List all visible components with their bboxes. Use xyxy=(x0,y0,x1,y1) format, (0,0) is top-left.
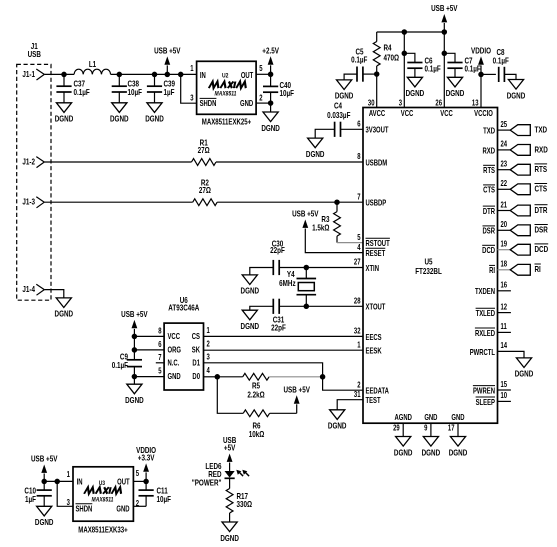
svg-text:3: 3 xyxy=(399,100,402,108)
svg-text:J1-3: J1-3 xyxy=(22,197,35,207)
svg-text:2: 2 xyxy=(259,95,262,103)
svg-text:30: 30 xyxy=(368,100,375,108)
U6 supply rail xyxy=(133,329,135,360)
svg-text:1: 1 xyxy=(67,471,70,479)
wire to RESET pin xyxy=(305,229,363,253)
svg-text:AT93C46A: AT93C46A xyxy=(168,303,200,313)
node XTOUT/Y4 xyxy=(304,304,310,310)
svg-text:SLEEP: SLEEP xyxy=(476,399,496,407)
svg-text:GND: GND xyxy=(424,414,437,422)
wire AGND xyxy=(402,423,404,436)
svg-text:RI: RI xyxy=(535,264,541,274)
svg-text:FT232BL: FT232BL xyxy=(415,266,442,276)
ground C37 xyxy=(56,103,71,113)
wire +5V to U3 IN xyxy=(43,474,45,482)
svg-text:RXD: RXD xyxy=(483,148,495,156)
wire R6 to +5V xyxy=(270,412,297,414)
wire J1-1 to L1 xyxy=(44,73,74,75)
svg-text:27: 27 xyxy=(354,259,361,267)
svg-text:1: 1 xyxy=(206,327,209,335)
svg-text:4: 4 xyxy=(206,367,209,375)
capacitor C11 xyxy=(145,481,147,490)
svg-text:USB: USB xyxy=(28,49,41,59)
svg-text:DGND: DGND xyxy=(406,88,425,98)
svg-text:+2.5V: +2.5V xyxy=(262,45,279,55)
node U3 SHDN branch xyxy=(54,479,60,485)
svg-text:0.1µF: 0.1µF xyxy=(424,64,441,74)
svg-text:13: 13 xyxy=(472,100,479,108)
wire L1 to U2 IN xyxy=(111,73,197,75)
svg-text:11: 11 xyxy=(500,324,506,332)
svg-text:0.033µF: 0.033µF xyxy=(327,110,351,120)
svg-text:DGND: DGND xyxy=(35,517,54,527)
resistor R1 27ohm xyxy=(192,159,216,166)
power USB +5V at RESET xyxy=(304,228,306,230)
ground LED xyxy=(222,522,237,532)
svg-text:4: 4 xyxy=(357,244,360,252)
wire to VCC pin 3 xyxy=(403,32,405,108)
wire U3 GND xyxy=(133,505,146,507)
svg-text:DSR: DSR xyxy=(535,225,549,235)
svg-text:DSR: DSR xyxy=(483,228,495,236)
node SHDN branch xyxy=(178,72,184,78)
svg-text:DGND: DGND xyxy=(110,114,129,124)
svg-text:2: 2 xyxy=(136,500,139,508)
wire LED to R17 xyxy=(229,478,231,488)
svg-text:CTS: CTS xyxy=(535,184,548,194)
svg-text:12: 12 xyxy=(500,304,507,312)
wire D0 xyxy=(204,376,218,378)
node DTR tag xyxy=(510,205,530,216)
svg-text:N.C.: N.C. xyxy=(167,360,179,368)
svg-text:27Ω: 27Ω xyxy=(199,185,211,195)
svg-text:VCC: VCC xyxy=(401,110,413,118)
wire GND 17 xyxy=(457,423,459,436)
wire R17 to ground xyxy=(229,513,231,522)
wire SK to EESK xyxy=(204,349,364,351)
wire J1-3 to R2 xyxy=(44,201,192,203)
svg-text:DGND: DGND xyxy=(446,88,465,98)
node DSR tag xyxy=(510,225,530,236)
power USB +5V at U2 input xyxy=(166,65,168,74)
wire TEST xyxy=(337,400,363,410)
svg-text:XTIN: XTIN xyxy=(365,265,378,273)
node U3 C10 xyxy=(41,479,47,485)
wire D1 to EEDATA node xyxy=(204,363,323,377)
power VDDIO at VCCIO xyxy=(480,65,482,74)
wire RXLED stub xyxy=(498,331,511,333)
power USB +5V at U6 xyxy=(133,328,135,330)
ground C30 xyxy=(242,275,257,285)
svg-text:USB +5V: USB +5V xyxy=(121,309,148,319)
capacitor C40 xyxy=(270,74,272,86)
wire U6 ORG xyxy=(134,349,164,351)
node VDDIO out xyxy=(143,479,149,485)
node C39 xyxy=(152,72,158,78)
svg-text:8: 8 xyxy=(357,154,360,162)
svg-text:DGND: DGND xyxy=(261,123,280,133)
IC U5 FT232BL box xyxy=(363,108,498,424)
wire to VCC pin 26 xyxy=(443,32,445,108)
wire RI stub xyxy=(498,269,511,271)
power USB +5V at R6 xyxy=(296,404,298,413)
wire DCD stub xyxy=(498,249,511,251)
svg-text:EESK: EESK xyxy=(365,348,381,356)
wire R2 to USBDP xyxy=(217,201,363,203)
svg-text:R4: R4 xyxy=(384,43,393,53)
svg-text:RSTOUT: RSTOUT xyxy=(365,240,390,248)
svg-text:TXLED: TXLED xyxy=(476,310,495,318)
svg-text:26: 26 xyxy=(435,100,442,108)
svg-text:VDDIO: VDDIO xyxy=(136,445,156,455)
wire R5 to EEDATA node xyxy=(269,376,323,378)
svg-text:DCD: DCD xyxy=(535,244,549,254)
wire +5V to LED xyxy=(229,463,231,472)
ground C4 xyxy=(308,138,323,148)
svg-text:ORG: ORG xyxy=(167,347,180,355)
svg-text:10kΩ: 10kΩ xyxy=(249,429,265,439)
svg-text:DGND: DGND xyxy=(145,114,164,124)
svg-text:IN: IN xyxy=(77,479,83,487)
capacitor C31 22pF xyxy=(280,305,306,307)
ground C7 xyxy=(447,77,462,87)
svg-text:1.5kΩ: 1.5kΩ xyxy=(312,222,329,232)
resistor R5 2.2kohm xyxy=(243,373,269,380)
wire EEDATA xyxy=(323,377,363,390)
svg-text:EEDATA: EEDATA xyxy=(365,388,388,396)
svg-text:RXD: RXD xyxy=(535,144,548,154)
svg-text:3: 3 xyxy=(190,95,193,103)
ground C38 xyxy=(112,103,127,113)
svg-text:DGND: DGND xyxy=(449,447,468,457)
svg-text:32: 32 xyxy=(354,328,361,336)
wire RXD stub xyxy=(498,149,511,151)
pin J1-2 xyxy=(36,157,44,168)
pin J1-3 xyxy=(36,197,44,208)
wire J1-2 to R1 xyxy=(44,161,191,163)
wire U3 OUT xyxy=(133,480,146,482)
svg-text:9: 9 xyxy=(424,425,427,433)
svg-text:GND: GND xyxy=(116,506,129,514)
svg-text:DTR: DTR xyxy=(483,208,495,216)
capacitor C6 xyxy=(404,53,415,62)
svg-text:USB +5V: USB +5V xyxy=(292,209,319,219)
svg-text:DGND: DGND xyxy=(335,91,354,101)
svg-text:2: 2 xyxy=(206,341,209,349)
svg-text:24: 24 xyxy=(500,141,507,149)
node VDDIO/C8 xyxy=(478,72,484,78)
svg-text:MAX8511EXK33+: MAX8511EXK33+ xyxy=(78,526,127,535)
node RTS tag xyxy=(510,164,530,175)
svg-text:SK: SK xyxy=(192,347,200,355)
svg-text:DGND: DGND xyxy=(306,149,325,159)
svg-text:J1-4: J1-4 xyxy=(22,284,35,294)
node USBDP/R3 xyxy=(334,199,340,205)
svg-text:3: 3 xyxy=(67,499,70,507)
ground GND 9 xyxy=(423,437,438,447)
svg-text:TXD: TXD xyxy=(535,125,548,135)
power +2.5V xyxy=(270,65,272,74)
ground C31 xyxy=(242,310,257,320)
svg-text:5: 5 xyxy=(259,66,262,74)
wire U6 VCC xyxy=(134,335,164,337)
LED LED6 xyxy=(225,471,235,478)
wire R3 to RSTOUT xyxy=(337,242,363,244)
svg-text:OUT: OUT xyxy=(241,72,254,80)
svg-text:USB +5V: USB +5V xyxy=(431,3,458,13)
svg-text:DTR: DTR xyxy=(535,205,549,215)
svg-text:22pF: 22pF xyxy=(270,245,285,255)
ground C6 xyxy=(407,77,422,87)
wire TXD stub xyxy=(498,129,511,131)
node CTS tag xyxy=(510,184,530,195)
svg-text:17: 17 xyxy=(448,425,455,433)
svg-text:1µF: 1µF xyxy=(163,87,174,97)
resistor R4 470ohm xyxy=(376,32,378,42)
node RI tag xyxy=(510,264,530,275)
U3 MAXIM logo xyxy=(84,487,122,494)
svg-text:PWRCTL: PWRCTL xyxy=(470,349,495,357)
svg-text:10µF: 10µF xyxy=(127,87,142,97)
svg-text:VCC: VCC xyxy=(167,333,179,341)
svg-text:MAX8511: MAX8511 xyxy=(92,497,114,504)
svg-text:6: 6 xyxy=(158,341,161,349)
svg-text:PWREN: PWREN xyxy=(473,388,495,396)
ground U6 xyxy=(133,377,135,385)
svg-text:8: 8 xyxy=(158,328,161,336)
wire XTIN xyxy=(306,267,363,269)
svg-text:31: 31 xyxy=(354,391,361,399)
svg-text:0.1µF: 0.1µF xyxy=(73,87,90,97)
ground C10 xyxy=(37,506,52,516)
svg-text:VDDIO: VDDIO xyxy=(471,46,491,56)
node U6 GND xyxy=(132,374,138,380)
svg-text:470Ω: 470Ω xyxy=(384,53,400,63)
node U6 ORG xyxy=(132,347,138,353)
svg-text:DGND: DGND xyxy=(55,114,74,124)
power USB +5V top xyxy=(443,23,445,32)
node EEDATA xyxy=(320,374,326,380)
svg-text:SHDN: SHDN xyxy=(75,506,92,514)
svg-text:OUT: OUT xyxy=(117,479,130,487)
svg-text:EECS: EECS xyxy=(365,334,381,342)
svg-text:RTS: RTS xyxy=(483,167,495,175)
svg-text:7: 7 xyxy=(357,194,360,202)
svg-text:2.2kΩ: 2.2kΩ xyxy=(247,390,264,400)
ground C8 xyxy=(508,80,523,90)
svg-text:25: 25 xyxy=(500,121,507,129)
ground C5 xyxy=(337,80,352,90)
crystal Y4 6MHz xyxy=(305,268,307,279)
svg-text:VCCIO: VCCIO xyxy=(474,110,493,118)
svg-text:0.1µF: 0.1µF xyxy=(351,55,368,65)
svg-text:USB +5V: USB +5V xyxy=(283,384,310,394)
svg-text:10µF: 10µF xyxy=(279,88,294,98)
node XTIN/Y4 xyxy=(304,265,310,271)
svg-text:SHDN: SHDN xyxy=(200,101,217,109)
svg-text:"POWER": "POWER" xyxy=(192,478,222,488)
svg-text:USBDP: USBDP xyxy=(365,200,386,208)
svg-text:18: 18 xyxy=(500,261,507,269)
node RXD tag xyxy=(510,145,530,156)
svg-text:330Ω: 330Ω xyxy=(236,499,252,509)
svg-text:AGND: AGND xyxy=(394,414,411,422)
svg-text:GND: GND xyxy=(167,374,180,382)
svg-text:20: 20 xyxy=(500,221,507,229)
svg-text:29: 29 xyxy=(393,425,400,433)
node rail/VCC3 xyxy=(402,29,408,35)
svg-text:AVCC: AVCC xyxy=(369,110,385,118)
node C6 tap xyxy=(402,51,408,57)
node USB +5V tap xyxy=(165,72,171,78)
top +5V rail xyxy=(377,31,445,33)
pin J1-4 xyxy=(36,284,44,295)
wire CTS stub xyxy=(498,188,511,190)
wire RTS stub xyxy=(498,169,511,171)
capacitor C9 xyxy=(127,359,142,361)
wire TXDEN stub xyxy=(498,290,511,292)
svg-text:6: 6 xyxy=(357,121,360,129)
U2 MAXIM logo xyxy=(209,82,247,89)
svg-text:L1: L1 xyxy=(89,59,96,69)
svg-text:22pF: 22pF xyxy=(271,323,286,333)
power VDDIO +3.3V xyxy=(145,472,147,481)
svg-text:DGND: DGND xyxy=(515,369,534,379)
svg-text:RTS: RTS xyxy=(535,164,548,174)
power USB +5V at LED xyxy=(229,462,231,464)
U6 NC stub xyxy=(156,362,164,364)
svg-text:GND: GND xyxy=(240,101,253,109)
capacitor C4 xyxy=(341,128,363,130)
node rail/VCC26 xyxy=(442,29,448,35)
capacitor C30 22pF xyxy=(280,267,306,269)
svg-text:CTS: CTS xyxy=(483,187,495,195)
wire DTR stub xyxy=(498,210,511,212)
ground C39 xyxy=(147,103,162,113)
svg-text:10: 10 xyxy=(500,393,507,401)
svg-text:1: 1 xyxy=(357,342,360,350)
resistor R17 330ohm xyxy=(226,489,233,513)
node C7 tap xyxy=(442,51,448,57)
svg-text:5: 5 xyxy=(136,471,139,479)
ground J1-4 xyxy=(56,298,71,308)
ground PWRCTL xyxy=(516,358,531,368)
wire TXLED stub xyxy=(498,312,511,314)
svg-text:DGND: DGND xyxy=(394,447,413,457)
node D0 xyxy=(215,374,221,380)
wire U2 GND to C40 xyxy=(257,102,271,104)
svg-text:DGND: DGND xyxy=(422,447,441,457)
svg-text:5: 5 xyxy=(357,234,360,242)
capacitor C39 xyxy=(154,74,156,86)
node C40 gnd xyxy=(268,100,274,106)
svg-text:DGND: DGND xyxy=(507,90,526,100)
svg-text:1: 1 xyxy=(190,66,193,74)
svg-text:USB: USB xyxy=(223,435,236,445)
svg-text:DCD: DCD xyxy=(482,247,495,255)
svg-text:3V3OUT: 3V3OUT xyxy=(365,127,389,135)
svg-text:RXLED: RXLED xyxy=(475,330,495,338)
node +2.5V/C40 xyxy=(268,72,274,78)
capacitor C8 xyxy=(481,73,496,75)
svg-text:J1-2: J1-2 xyxy=(22,157,35,167)
wire to AVCC pin 30 xyxy=(376,74,378,107)
node DCD tag xyxy=(510,244,530,255)
wire J1-4 to ground xyxy=(44,290,64,298)
node U6 VCC xyxy=(132,334,138,340)
wire DSR stub xyxy=(498,229,511,231)
node R4/C5/AVCC xyxy=(374,71,380,77)
wire U2 OUT xyxy=(257,73,271,75)
svg-text:RI: RI xyxy=(489,268,495,276)
svg-text:27Ω: 27Ω xyxy=(198,145,210,155)
capacitor C10 xyxy=(43,481,45,490)
svg-text:J1-1: J1-1 xyxy=(22,69,35,79)
wire R1 to USBDM xyxy=(216,161,363,163)
svg-text:DGND: DGND xyxy=(125,395,144,405)
wire D0 to R6 xyxy=(217,377,243,414)
svg-text:USB +5V: USB +5V xyxy=(31,454,58,464)
wire U3 SHDN xyxy=(57,481,72,506)
svg-text:TEST: TEST xyxy=(365,397,381,405)
capacitor C7 xyxy=(444,53,455,62)
wire GND 9 xyxy=(430,423,432,436)
node J1-1/C37 xyxy=(61,72,67,78)
svg-text:TXD: TXD xyxy=(483,128,495,136)
svg-text:0.1µF: 0.1µF xyxy=(112,360,129,370)
svg-text:U2: U2 xyxy=(222,73,229,80)
svg-text:VCC: VCC xyxy=(440,110,452,118)
svg-text:IN: IN xyxy=(200,72,206,80)
ground U2 GND xyxy=(270,103,272,112)
svg-text:TXDEN: TXDEN xyxy=(475,289,495,297)
svg-text:3: 3 xyxy=(206,354,209,362)
op-amp U2 MAX8511 box xyxy=(197,61,257,114)
resistor R2 27ohm xyxy=(193,199,217,206)
svg-text:MAX8511: MAX8511 xyxy=(215,91,237,98)
node L1/C38 xyxy=(117,72,123,78)
svg-text:19: 19 xyxy=(500,241,507,249)
wire to VCCIO pin 13 xyxy=(480,74,482,107)
wire to U2 SHDN xyxy=(181,74,197,103)
svg-text:XTOUT: XTOUT xyxy=(365,304,386,312)
svg-text:RESET: RESET xyxy=(365,250,385,258)
wire CS to EECS xyxy=(204,335,364,337)
svg-text:2: 2 xyxy=(357,382,360,390)
ground GND 17 xyxy=(450,437,465,447)
svg-text:DGND: DGND xyxy=(55,309,74,319)
svg-text:0.1µF: 0.1µF xyxy=(493,56,510,66)
EEPROM U6 AT93C46A box xyxy=(164,323,203,390)
svg-text:GND: GND xyxy=(451,414,464,422)
svg-text:1µF: 1µF xyxy=(25,494,36,504)
ground TEST xyxy=(330,410,345,420)
svg-text:15: 15 xyxy=(500,381,507,389)
svg-text:MAX8511EXK25+: MAX8511EXK25+ xyxy=(202,118,251,127)
wire SLEEP stub xyxy=(498,400,511,402)
wire D0 to R5 xyxy=(217,376,242,378)
svg-text:USB +5V: USB +5V xyxy=(154,46,181,56)
wire XTOUT xyxy=(306,305,363,307)
capacitor C5 xyxy=(363,73,377,75)
svg-text:21: 21 xyxy=(500,202,507,210)
svg-text:5: 5 xyxy=(158,368,161,376)
resistor R3 1.5kohm xyxy=(336,202,338,211)
wire PWREN stub xyxy=(498,389,511,391)
svg-text:DGND: DGND xyxy=(328,421,347,431)
svg-text:7: 7 xyxy=(158,354,161,362)
pin J1-1 xyxy=(36,69,44,80)
